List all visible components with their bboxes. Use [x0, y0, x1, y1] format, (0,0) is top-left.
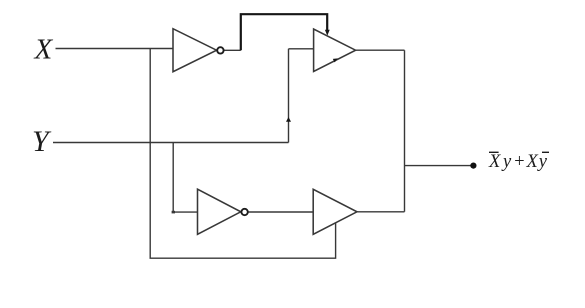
- svg-text:+: +: [513, 152, 525, 172]
- svg-text:X: X: [526, 152, 539, 172]
- svg-text:y: y: [537, 152, 548, 172]
- svg-text:X: X: [34, 34, 54, 66]
- svg-text:y: y: [501, 152, 512, 172]
- svg-text:Y: Y: [32, 125, 52, 158]
- svg-text:X: X: [488, 152, 501, 172]
